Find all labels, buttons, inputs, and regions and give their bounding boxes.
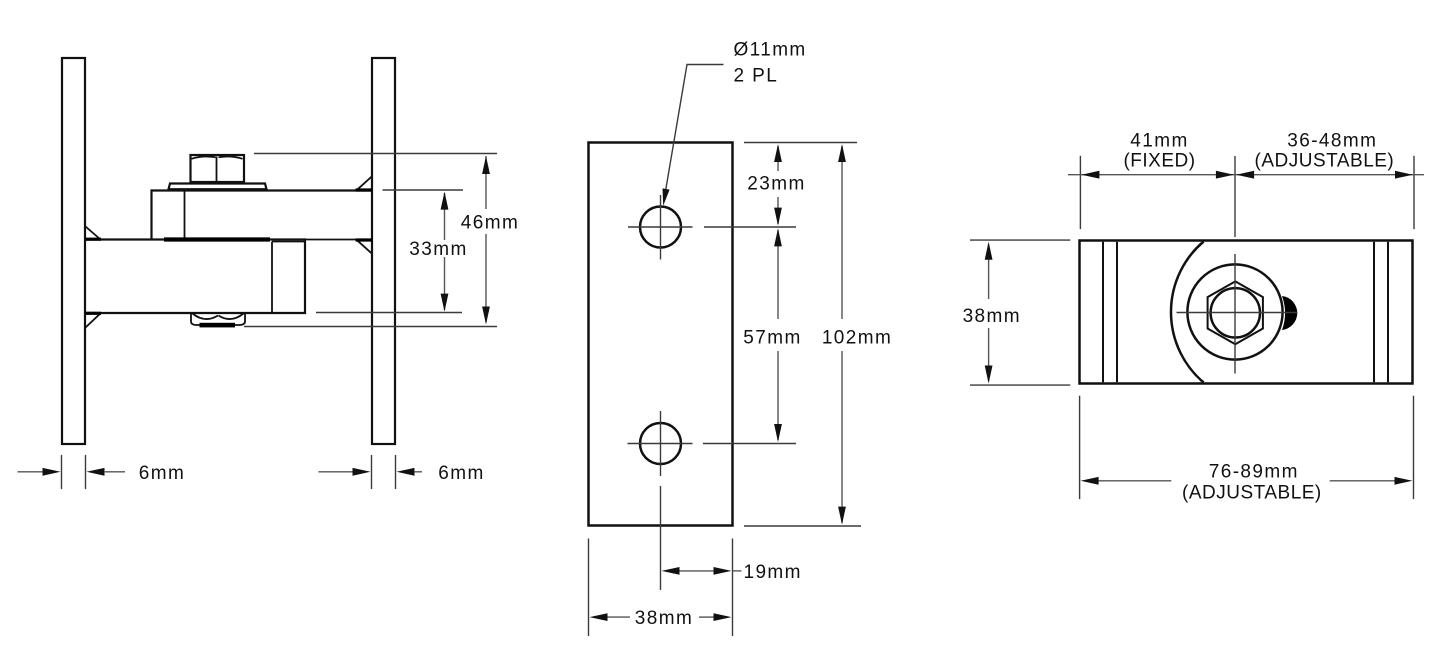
23mm dimension line xyxy=(777,146,779,171)
washer under top nut xyxy=(169,184,267,190)
102mm dimension line xyxy=(841,146,843,319)
upper hole xyxy=(640,207,681,248)
weld fillet left plate upper xyxy=(86,227,101,240)
mounting plate (front view) xyxy=(589,143,733,526)
6mm dimension arrows right xyxy=(319,471,354,473)
svg-text:41mm: 41mm xyxy=(1130,131,1188,152)
svg-text:Ø11mm: Ø11mm xyxy=(734,40,807,61)
lower hole extension line xyxy=(703,443,796,445)
washer circle (top view) xyxy=(1187,264,1282,359)
38mm extension lines (top view) xyxy=(970,239,1070,241)
lower arm (attached to left plate) xyxy=(85,240,305,314)
41mm / 36-48mm dimension line xyxy=(1068,174,1424,176)
svg-text:38mm: 38mm xyxy=(635,608,693,629)
svg-text:36-48mm: 36-48mm xyxy=(1287,131,1377,152)
lower arm bottom edge + 33mm bottom extension line xyxy=(316,312,462,314)
plate bottom extension line xyxy=(744,525,861,527)
38mm dimension line (top view) xyxy=(988,244,990,299)
leader line to holes xyxy=(665,65,724,198)
svg-text:102mm: 102mm xyxy=(822,328,892,349)
33mm top extension line xyxy=(383,189,464,191)
76-89mm extension line right xyxy=(1413,396,1415,499)
svg-text:57mm: 57mm xyxy=(743,328,801,349)
svg-text:(ADJUSTABLE): (ADJUSTABLE) xyxy=(1182,482,1322,503)
horizontal centerline xyxy=(1177,312,1298,314)
46mm dimension line xyxy=(485,156,487,209)
57mm dimension line xyxy=(777,230,779,319)
hex nut on top (side view) xyxy=(191,155,245,182)
upper hole extension line xyxy=(704,226,796,228)
svg-text:(FIXED): (FIXED) xyxy=(1123,150,1195,171)
swivel arc xyxy=(1171,242,1204,383)
top nut center facet line xyxy=(216,157,218,183)
19mm extension ticks xyxy=(660,486,662,590)
33mm dimension line xyxy=(444,193,446,240)
top extension line right xyxy=(1413,156,1415,229)
left wall plate (side view) xyxy=(62,58,85,444)
76-89mm extension line left xyxy=(1079,396,1081,499)
vertical centerline xyxy=(1234,156,1236,237)
nut inscribed circle xyxy=(1211,288,1260,337)
right speaker plate (side view) xyxy=(372,58,395,444)
weld fillet right plate lower xyxy=(357,240,372,254)
76-89mm dimension line xyxy=(1098,480,1171,482)
lower hole crosshair xyxy=(628,443,693,445)
6mm extension ticks left plate xyxy=(61,455,63,489)
weld fillet left plate lower xyxy=(86,313,101,327)
upper arm bottom edge xyxy=(152,239,373,241)
right plate edge lines xyxy=(1373,242,1375,382)
upper arm (attached to right plate) xyxy=(152,191,373,240)
hex nut (top view) xyxy=(1208,281,1263,344)
bottom nut face arcs xyxy=(193,314,244,320)
extension line from bottom nut (46mm bottom) xyxy=(244,326,497,328)
top nut chamfer arcs xyxy=(192,156,243,158)
svg-text:19mm: 19mm xyxy=(744,562,802,583)
clamp body (top view) xyxy=(1080,241,1413,384)
upper arm inner edge line xyxy=(184,191,186,240)
38mm extension tick left xyxy=(588,539,590,637)
svg-text:38mm: 38mm xyxy=(963,306,1021,327)
upper hole crosshair xyxy=(628,226,693,228)
lower arm right-tab top edge xyxy=(272,241,305,243)
left plate edge lines xyxy=(1102,242,1104,382)
svg-text:23mm: 23mm xyxy=(747,174,805,195)
weld fillet right plate upper xyxy=(357,176,372,190)
svg-text:76-89mm: 76-89mm xyxy=(1209,461,1299,482)
6mm extension ticks right plate xyxy=(371,455,373,489)
top extension line left xyxy=(1079,156,1081,229)
38mm dimension arrows xyxy=(590,613,608,621)
extension line from top nut (46mm top) xyxy=(254,153,497,155)
6mm dimension arrows left xyxy=(18,471,44,473)
svg-text:33mm: 33mm xyxy=(409,239,467,260)
19mm dimension arrows xyxy=(662,567,680,575)
lower hole xyxy=(640,423,681,464)
svg-text:46mm: 46mm xyxy=(461,213,519,234)
svg-text:2 PL: 2 PL xyxy=(734,66,779,87)
bottom nut under lower arm (side view) xyxy=(191,313,245,325)
thick clamp interface line between arms xyxy=(164,237,270,241)
svg-text:6mm: 6mm xyxy=(438,463,484,484)
plate top extension line xyxy=(744,142,857,144)
bolt threaded end (top view) xyxy=(1282,296,1297,330)
lower arm inner edge line xyxy=(271,242,273,314)
svg-text:(ADJUSTABLE): (ADJUSTABLE) xyxy=(1255,150,1395,171)
svg-text:6mm: 6mm xyxy=(139,463,185,484)
bolt end bar under bottom nut xyxy=(200,323,236,328)
